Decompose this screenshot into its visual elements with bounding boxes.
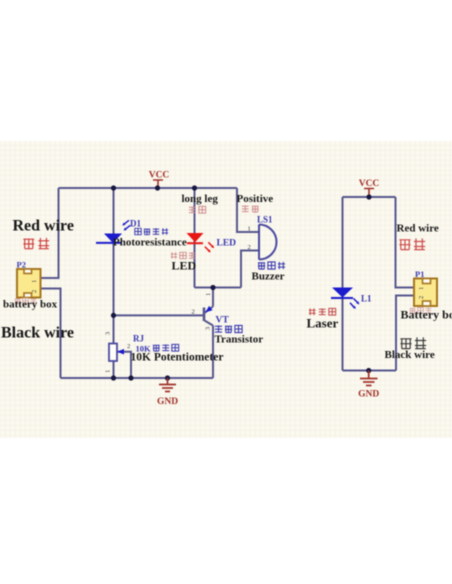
wire: laser branch vertical bbox=[342, 197, 344, 371]
svg-text:Positive: Positive bbox=[237, 193, 274, 205]
svg-text:Red wire: Red wire bbox=[397, 223, 439, 235]
node: VCC junction (right) bbox=[366, 194, 371, 199]
label 激光头 (red) bbox=[309, 308, 336, 315]
power symbol VCC (right) bbox=[364, 189, 374, 198]
wire: battery pin2 down to bottom rail bbox=[396, 296, 414, 371]
svg-text:Laser: Laser bbox=[307, 316, 339, 331]
node: wiper junction bbox=[128, 375, 133, 380]
svg-text:2: 2 bbox=[192, 309, 195, 316]
svg-text:1: 1 bbox=[105, 370, 112, 373]
node: photoresistor top junction bbox=[111, 185, 116, 190]
label 正极 (faint red) bbox=[242, 205, 259, 212]
svg-text:10K Potentiometer: 10K Potentiometer bbox=[131, 352, 224, 364]
svg-text:P2: P2 bbox=[17, 260, 26, 270]
svg-text:2: 2 bbox=[418, 296, 425, 299]
svg-text:P1: P1 bbox=[415, 269, 424, 279]
svg-text:GND: GND bbox=[358, 390, 379, 400]
wire: right rail to battery pin1 bbox=[396, 197, 415, 288]
node: GND junction (right) bbox=[366, 368, 371, 373]
label 长脚 (faint red) bbox=[189, 206, 206, 213]
LED DS symbol bbox=[187, 233, 215, 253]
label 红线 (red, left) bbox=[23, 238, 49, 249]
svg-text:LED: LED bbox=[172, 259, 197, 273]
svg-text:1: 1 bbox=[31, 280, 38, 283]
photoresistor D1 symbol bbox=[96, 220, 130, 243]
svg-text:2: 2 bbox=[248, 244, 251, 251]
ground symbol GND (left) bbox=[159, 378, 176, 392]
svg-text:2: 2 bbox=[31, 290, 38, 293]
wire: LED cathode to collector node bbox=[195, 287, 242, 289]
wire: buzzer pin2 down to collector node bbox=[241, 251, 259, 288]
node: collector junction bbox=[210, 285, 215, 290]
node: base junction bbox=[111, 313, 116, 318]
node: LED top junction bbox=[192, 185, 197, 190]
svg-text:3: 3 bbox=[105, 332, 112, 335]
svg-text:1: 1 bbox=[418, 287, 425, 290]
svg-text:L1: L1 bbox=[361, 294, 372, 304]
svg-text:Transistor: Transistor bbox=[215, 334, 264, 346]
svg-text:long leg: long leg bbox=[182, 193, 219, 205]
wire: potentiometer wiper to bottom rail bbox=[117, 352, 131, 378]
svg-text:2: 2 bbox=[127, 343, 130, 350]
label 光敏电阻 (blue) bbox=[135, 228, 168, 234]
label 指示灯 (faint red) bbox=[171, 252, 195, 258]
wire: bottom rail (left circuit) bbox=[61, 377, 214, 379]
svg-text:3: 3 bbox=[205, 327, 212, 330]
svg-text:Battery box: Battery box bbox=[401, 308, 452, 322]
svg-text:LS1: LS1 bbox=[257, 215, 273, 225]
node: pot pin1 junction bbox=[111, 375, 116, 380]
schematic paper background bbox=[0, 141, 452, 438]
wire: emitter vertical to bottom rail bbox=[212, 326, 214, 379]
battery box P2 bbox=[17, 269, 41, 298]
wire: top rail (right circuit) bbox=[343, 196, 396, 198]
svg-text:Black wire: Black wire bbox=[385, 349, 435, 361]
node: VCC junction bbox=[155, 185, 160, 190]
laser diode L1 symbol bbox=[331, 288, 359, 309]
svg-text:LED: LED bbox=[217, 239, 237, 249]
svg-text:VCC: VCC bbox=[149, 171, 170, 181]
wire: base wire from node to transistor bbox=[114, 314, 205, 316]
svg-text:GND: GND bbox=[157, 397, 178, 407]
label 黑线 (black, right) bbox=[400, 337, 426, 348]
wire: bottom rail (right circuit) bbox=[343, 370, 397, 372]
power symbol VCC (left) bbox=[153, 180, 163, 188]
svg-text:Photoresistance: Photoresistance bbox=[113, 237, 187, 249]
svg-text:VT: VT bbox=[216, 316, 230, 326]
node: GND junction (left) bbox=[165, 375, 170, 380]
svg-text:1: 1 bbox=[205, 293, 212, 296]
label 红线 (red, right) bbox=[399, 238, 425, 249]
wire: battery pin 2 down to bottom rail bbox=[41, 289, 61, 379]
ground symbol GND (right) bbox=[360, 371, 378, 386]
svg-text:Red wire: Red wire bbox=[13, 218, 74, 235]
potentiometer wiper arrow bbox=[117, 349, 124, 355]
label 蜂鸣器 (blue) bbox=[258, 262, 285, 269]
svg-text:1: 1 bbox=[248, 226, 251, 233]
potentiometer RJ body bbox=[109, 344, 117, 362]
svg-text:Black wire: Black wire bbox=[1, 325, 74, 342]
label 三极管 (blue) bbox=[215, 325, 242, 332]
svg-text:RJ: RJ bbox=[133, 334, 144, 344]
battery box P1 bbox=[414, 279, 437, 307]
wire: LED branch vertical bbox=[194, 188, 196, 288]
svg-text:battery box: battery box bbox=[3, 299, 58, 311]
label 电池盒 (faint red, left) bbox=[15, 298, 37, 304]
wire: potentiometer pin1 to bottom rail bbox=[113, 361, 115, 378]
svg-text:VCC: VCC bbox=[359, 179, 380, 189]
transistor VT bbox=[204, 307, 213, 326]
svg-text:D1: D1 bbox=[130, 219, 141, 229]
wire: top rail (left circuit) bbox=[59, 187, 238, 189]
wire: collector vertical bbox=[212, 288, 214, 307]
label 电池盒 (faint red, right) bbox=[410, 308, 432, 314]
wire: buzzer pin1 branch from top rail bbox=[237, 188, 259, 232]
wire: photoresistor branch vertical bbox=[113, 188, 115, 344]
svg-text:Buzzer: Buzzer bbox=[252, 271, 285, 283]
buzzer LS1 bbox=[259, 225, 277, 260]
transistor arrow bbox=[205, 306, 212, 313]
wire: left rail down to battery pin 1 bbox=[41, 188, 59, 278]
